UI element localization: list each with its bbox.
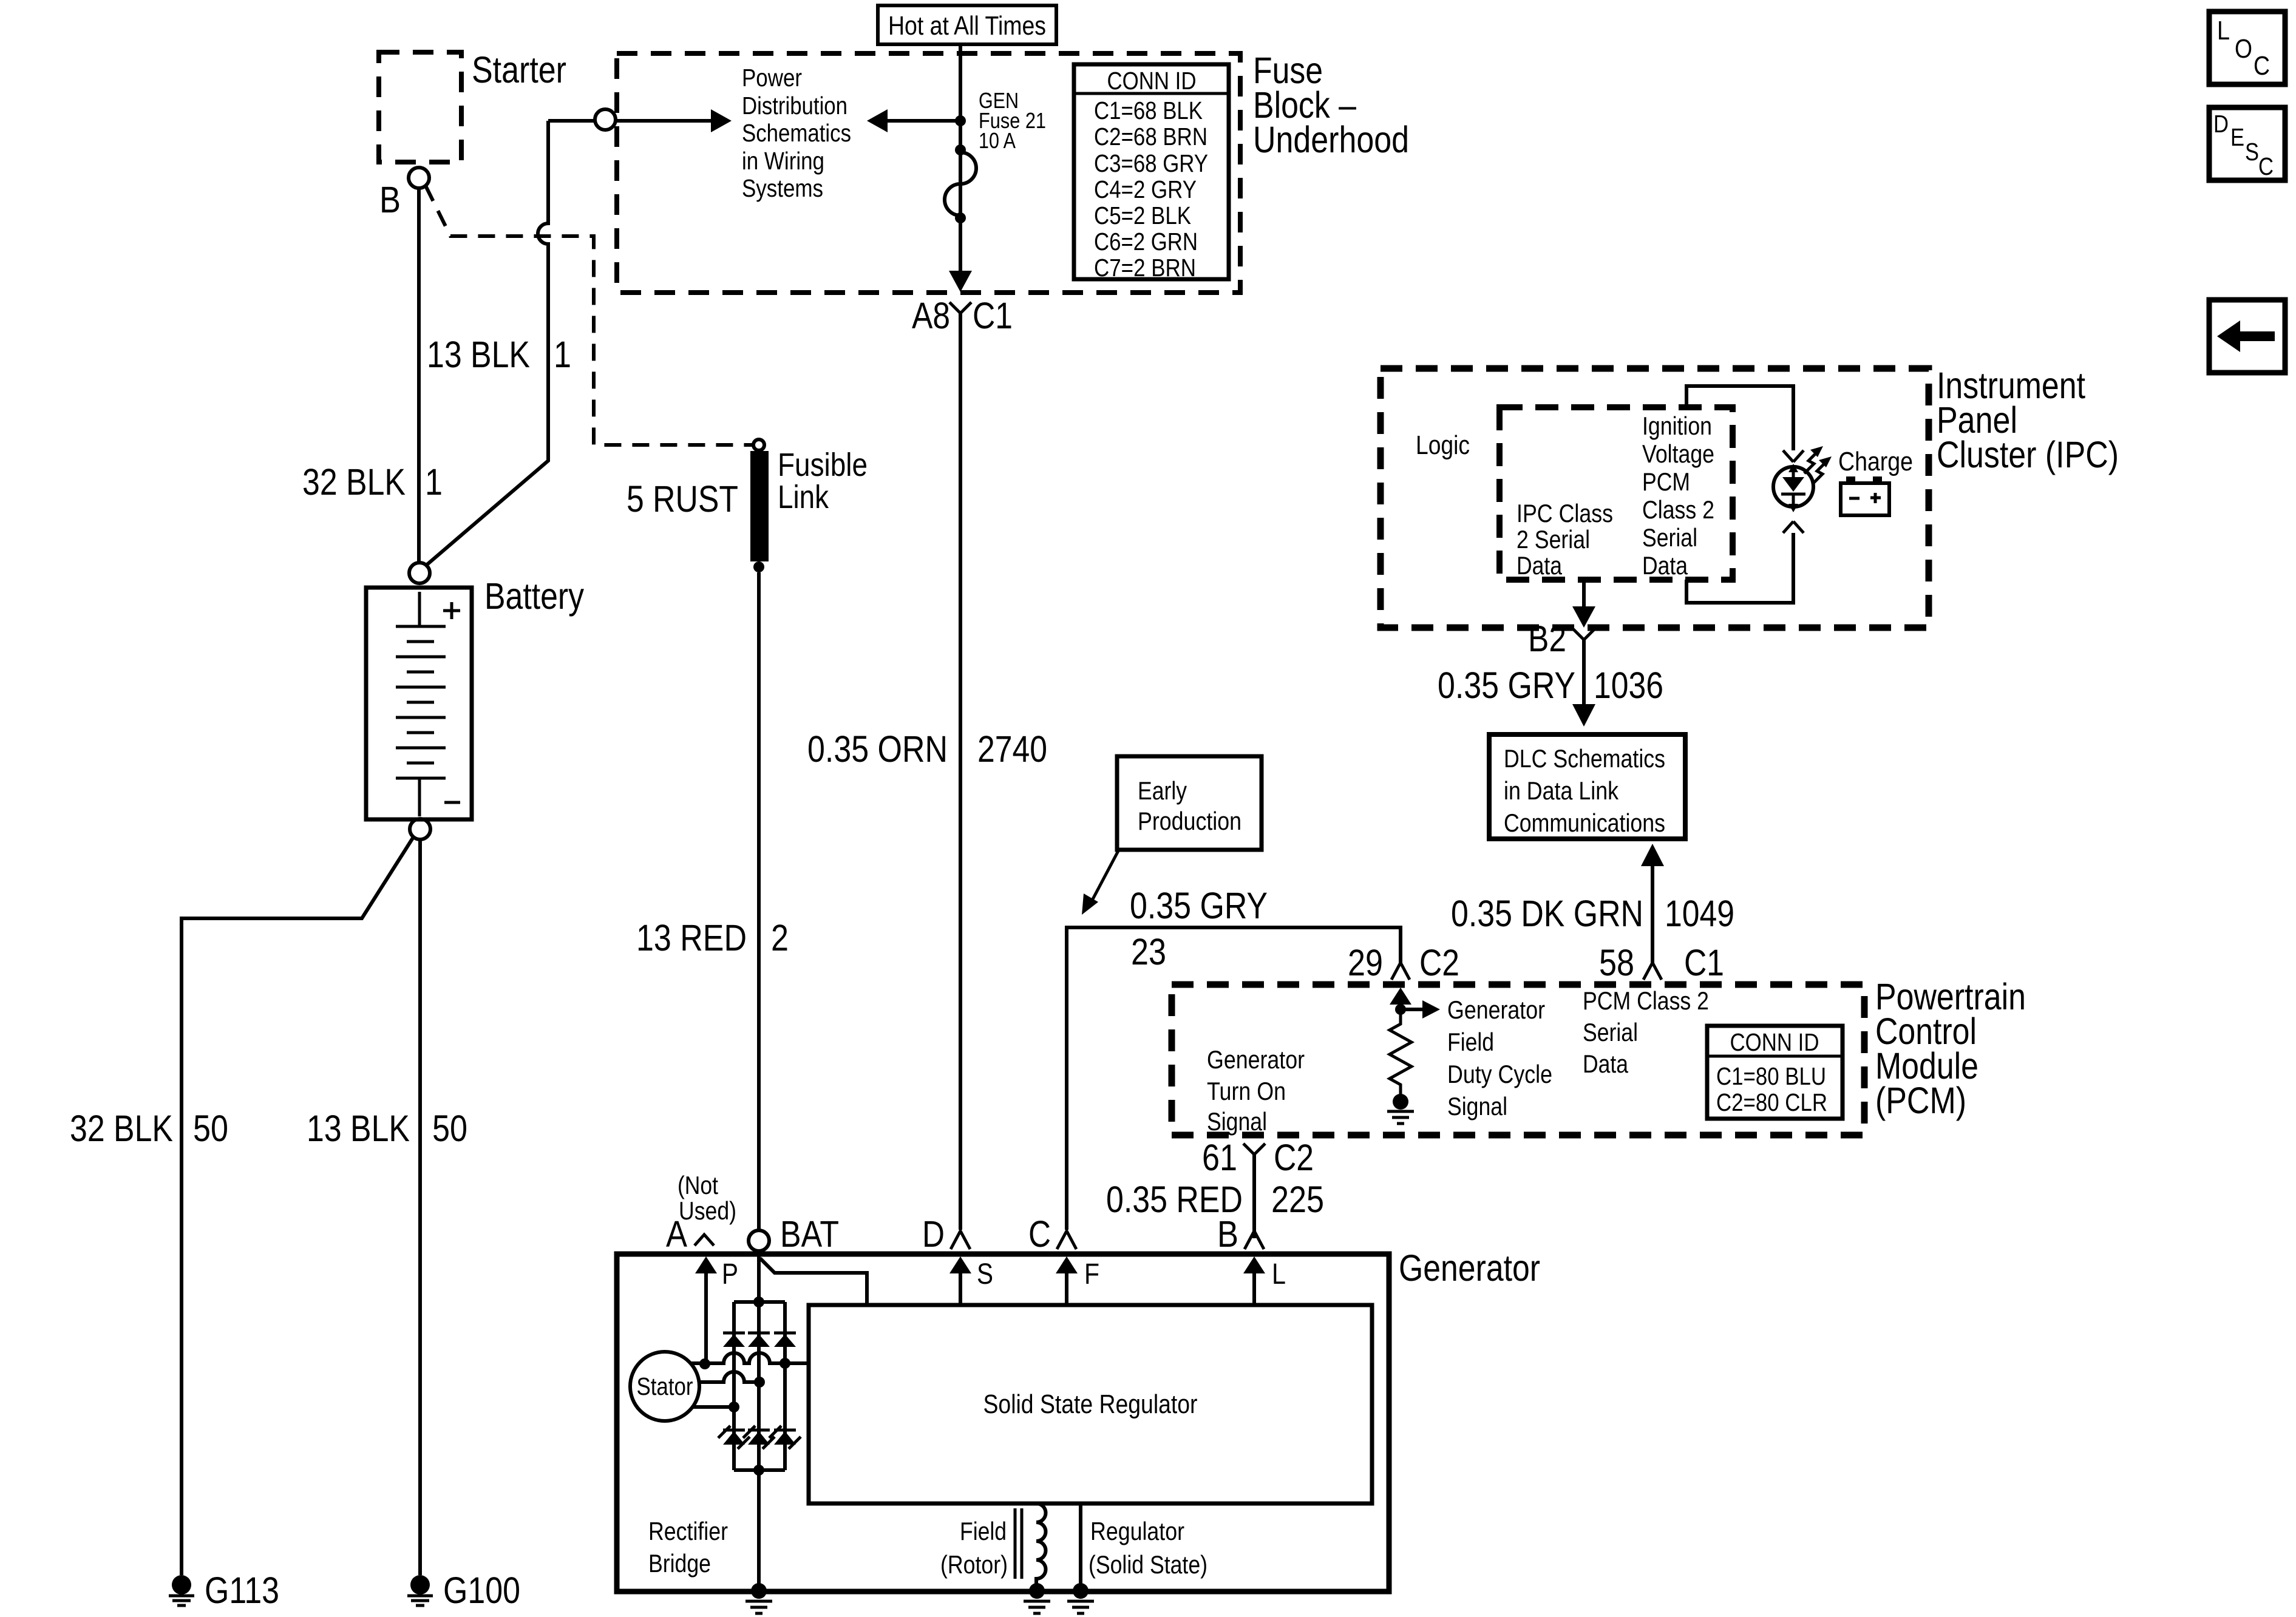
LED vertical stubs with arrows <box>1792 469 1795 507</box>
field rotor core bars <box>1015 1508 1022 1579</box>
terminal F arrow inside generator <box>1065 1269 1068 1305</box>
svg-text:B: B <box>379 179 401 220</box>
svg-text:Communications: Communications <box>1504 808 1665 837</box>
label IPC Class 2 Serial Data <box>1517 499 1613 580</box>
generator box <box>617 1254 1389 1592</box>
LOC box top right <box>2209 12 2285 84</box>
node phase1 at stator <box>699 1358 710 1369</box>
back arrow box right side <box>2209 300 2285 373</box>
svg-text:D: D <box>922 1213 945 1255</box>
svg-text:Charge: Charge <box>1838 447 1913 476</box>
svg-text:Generator: Generator <box>1399 1247 1540 1289</box>
starter dashed box <box>379 52 461 162</box>
label power distribution schematics <box>742 64 851 202</box>
ground G100 <box>407 1570 520 1611</box>
wire segment right of arrow <box>888 119 960 123</box>
svg-text:PCM Class 2: PCM Class 2 <box>1583 986 1709 1015</box>
early production pointer line <box>1091 850 1119 903</box>
svg-text:Generator: Generator <box>1207 1045 1305 1074</box>
node junction on fuse wire <box>955 115 966 126</box>
fuse GEN Fuse 21 10A : top node <box>955 144 966 155</box>
svg-text:2740: 2740 <box>977 728 1047 770</box>
svg-text:Turn On: Turn On <box>1207 1077 1286 1105</box>
label (Not Used) <box>678 1171 736 1225</box>
instrument panel cluster dashed box <box>1381 368 1929 628</box>
label Regulator (Solid State) <box>1089 1517 1207 1579</box>
svg-text:1: 1 <box>425 461 443 503</box>
battery top connector circle <box>409 563 430 583</box>
rectifier bridge top bus <box>734 1300 785 1304</box>
early production arrowhead <box>1082 893 1098 915</box>
svg-text:C3=68 GRY: C3=68 GRY <box>1094 149 1208 177</box>
label Fuse Block - Underhood <box>1253 50 1409 160</box>
wire from logic box top to LED branch <box>1686 386 1793 450</box>
diode top right <box>774 1333 796 1347</box>
svg-text:DLC Schematics: DLC Schematics <box>1504 744 1665 773</box>
svg-text:13 RED: 13 RED <box>636 917 747 958</box>
svg-text:29: 29 <box>1348 942 1383 983</box>
svg-text:Bridge: Bridge <box>648 1549 711 1578</box>
ground in PCM : node <box>1393 1094 1408 1110</box>
svg-text:Fusible: Fusible <box>778 447 868 483</box>
svg-text:Production: Production <box>1138 807 1241 835</box>
label Ignition Voltage PCM Class 2 Serial Data <box>1642 412 1714 580</box>
DLC schematics box <box>1489 734 1685 839</box>
svg-text:Distribution: Distribution <box>742 92 847 120</box>
CONN ID table (PCM) <box>1707 1026 1843 1119</box>
svg-text:Data: Data <box>1642 551 1688 580</box>
LED cathode bar <box>1781 493 1805 496</box>
svg-text:in Data Link: in Data Link <box>1504 776 1619 805</box>
svg-text:0.35 GRY: 0.35 GRY <box>1438 665 1575 706</box>
svg-text:S: S <box>2245 138 2259 166</box>
svg-text:Ignition: Ignition <box>1642 412 1712 440</box>
zener bottom right <box>769 1426 801 1449</box>
label 0.35 DK GRN 1049 <box>1451 893 1734 934</box>
svg-text:1049: 1049 <box>1665 893 1734 934</box>
svg-text:C1: C1 <box>973 295 1013 336</box>
stator winding phase 1 <box>691 1353 809 1363</box>
svg-text:(Rotor): (Rotor) <box>940 1550 1008 1579</box>
svg-text:F: F <box>1084 1258 1099 1290</box>
svg-text:13 BLK: 13 BLK <box>427 334 530 375</box>
svg-text:Solid State Regulator: Solid State Regulator <box>983 1389 1198 1419</box>
svg-text:0.35 DK GRN: 0.35 DK GRN <box>1451 893 1643 934</box>
BAT wire into generator down to ground <box>757 1251 761 1585</box>
svg-text:Used): Used) <box>679 1196 736 1225</box>
svg-text:Serial: Serial <box>1642 523 1697 552</box>
svg-text:50: 50 <box>432 1108 467 1149</box>
svg-text:E: E <box>2230 123 2244 151</box>
svg-text:C1=80 BLU: C1=80 BLU <box>1716 1062 1826 1090</box>
svg-text:2 Serial: 2 Serial <box>1517 525 1590 554</box>
svg-text:(PCM): (PCM) <box>1875 1080 1966 1121</box>
svg-text:Systems: Systems <box>742 174 823 202</box>
svg-text:Voltage: Voltage <box>1642 439 1714 468</box>
resistor generator field duty cycle <box>1390 1009 1411 1094</box>
wire branch to power distribution (right arrow) <box>616 119 711 123</box>
svg-text:Data: Data <box>1517 551 1563 580</box>
wire 13 RED 2 from fusible link to BAT <box>757 572 761 1230</box>
label 32 BLK 1 <box>302 461 443 503</box>
ground in PCM : bars <box>1387 1111 1414 1124</box>
svg-text:C2: C2 <box>1274 1137 1314 1178</box>
svg-text:BAT: BAT <box>780 1213 839 1255</box>
connector D with S terminal <box>922 1213 970 1255</box>
node phase3 at left rail <box>729 1402 739 1412</box>
wire 0.35 GRY 1036 <box>1582 640 1586 705</box>
wire 0.35 GRY 23 from corner to PCM 29 C2 <box>1067 927 1401 1230</box>
svg-text:Starter: Starter <box>472 49 566 90</box>
battery box <box>366 588 472 819</box>
svg-text:CONN ID: CONN ID <box>1730 1028 1819 1056</box>
node BAT top bus <box>753 1297 764 1307</box>
svg-text:Serial: Serial <box>1583 1018 1638 1046</box>
node on resistor top <box>1395 1004 1406 1015</box>
label Fusible Link <box>778 447 868 515</box>
LED light arrow 2 <box>1813 456 1832 484</box>
wire from starter area through connector ring <box>548 119 594 123</box>
PCM internal arrow up at 29 C2 <box>1399 1002 1402 1009</box>
battery minus sign <box>444 801 460 804</box>
node regulator ground <box>1073 1583 1089 1599</box>
connector 29 C2 <box>1348 942 1459 983</box>
label Instrument Panel Cluster (IPC) <box>1937 365 2119 475</box>
svg-text:C: C <box>1028 1213 1051 1255</box>
svg-text:C: C <box>2258 152 2274 180</box>
ground below field coil <box>1024 1601 1050 1613</box>
stator winding phase 2 <box>699 1372 759 1382</box>
connector B2 <box>1573 629 1595 640</box>
svg-text:C2=80 CLR: C2=80 CLR <box>1716 1088 1827 1116</box>
svg-text:Rectifier: Rectifier <box>648 1517 728 1545</box>
diode top left <box>723 1333 745 1347</box>
wire 0.35 DK GRN 1049 up to DLC <box>1651 865 1654 963</box>
svg-text:P: P <box>722 1258 738 1290</box>
svg-text:C2=68 BRN: C2=68 BRN <box>1094 123 1207 151</box>
zener bottom middle <box>743 1426 775 1449</box>
svg-text:C1: C1 <box>1684 942 1724 983</box>
rectifier bridge bottom bus <box>734 1468 785 1472</box>
svg-text:Underhood: Underhood <box>1253 119 1409 160</box>
svg-text:Logic: Logic <box>1416 430 1470 460</box>
connector circle at starter B <box>409 168 429 188</box>
label 0.35 GRY 1036 <box>1438 665 1663 706</box>
svg-text:A8: A8 <box>912 295 950 336</box>
wire 0.35 ORN 2740 down to generator S <box>959 313 962 1230</box>
IPC logic inner dashed box <box>1500 407 1733 580</box>
connector C with F terminal <box>1028 1213 1076 1255</box>
connector BAT circle <box>749 1230 769 1251</box>
svg-text:Class 2: Class 2 <box>1642 495 1714 524</box>
B2 exit arrow inside IPC <box>1582 580 1586 607</box>
svg-text:Duty Cycle: Duty Cycle <box>1447 1060 1552 1088</box>
stator circle <box>630 1352 699 1421</box>
connector A (not used) chevron <box>695 1235 714 1246</box>
terminal P arrow inside generator <box>704 1269 708 1363</box>
ground below BAT <box>746 1601 772 1613</box>
label Rectifier Bridge <box>648 1517 728 1578</box>
label Generator Turn On Signal <box>1207 1045 1305 1136</box>
svg-text:Link: Link <box>778 479 829 515</box>
svg-text:L: L <box>1272 1258 1286 1290</box>
svg-text:Schematics: Schematics <box>742 119 851 147</box>
svg-text:S: S <box>977 1258 993 1290</box>
svg-text:50: 50 <box>193 1108 228 1149</box>
rectifier bridge left rail <box>732 1302 736 1470</box>
svg-text:Regulator: Regulator <box>1090 1517 1184 1545</box>
svg-text:Signal: Signal <box>1447 1092 1507 1120</box>
svg-text:B: B <box>1217 1213 1238 1255</box>
fuse block underhood dashed box <box>617 53 1240 293</box>
svg-text:32 BLK: 32 BLK <box>302 461 406 503</box>
node phase2 at middle rail <box>754 1377 765 1388</box>
fuse element squiggle <box>945 152 976 215</box>
node phase1 at right rail <box>779 1358 790 1369</box>
svg-text:C2: C2 <box>1419 942 1459 983</box>
svg-text:in Wiring: in Wiring <box>742 147 824 175</box>
svg-text:G113: G113 <box>205 1570 279 1611</box>
fusible link bottom node <box>753 561 764 572</box>
svg-text:B2: B2 <box>1528 618 1566 659</box>
svg-text:PCM: PCM <box>1642 467 1690 496</box>
svg-text:Field: Field <box>960 1517 1007 1545</box>
svg-text:225: 225 <box>1271 1179 1324 1220</box>
connector circle inline <box>595 109 616 130</box>
svg-text:10 A: 10 A <box>979 128 1016 153</box>
CONN ID table (fuse block) <box>1074 64 1229 282</box>
wire 13 BLK 1 with crossover hop <box>425 121 548 566</box>
svg-text:C1=68 BLK: C1=68 BLK <box>1094 97 1203 124</box>
label 32 BLK 50 <box>70 1108 228 1149</box>
node field coil at bottom <box>1029 1583 1045 1599</box>
svg-text:CONN ID: CONN ID <box>1107 67 1197 95</box>
svg-text:Early: Early <box>1138 776 1187 805</box>
svg-text:L: L <box>2217 16 2230 46</box>
label Generator Field Duty Cycle Signal <box>1447 995 1552 1120</box>
svg-text:32 BLK: 32 BLK <box>70 1108 173 1149</box>
label 13 BLK 50 <box>307 1108 467 1149</box>
svg-text:(Not: (Not <box>678 1171 718 1199</box>
svg-text:C6=2 GRN: C6=2 GRN <box>1094 228 1198 256</box>
terminal L arrow inside generator <box>1252 1269 1256 1305</box>
node bottom bus <box>753 1465 764 1476</box>
solid state regulator box <box>809 1305 1372 1503</box>
fusible link top circle <box>753 439 764 450</box>
svg-text:C7=2 BRN: C7=2 BRN <box>1094 254 1196 282</box>
battery plus sign <box>443 602 460 619</box>
charge indicator LED circle <box>1773 467 1813 507</box>
wire 0.35 RED 225 down to generator L <box>1252 1154 1256 1238</box>
wire 32 BLK 50 to G113 <box>182 837 413 1575</box>
wire 32 BLK 1 from B to battery <box>417 188 421 563</box>
wire from hot box to fuse <box>959 44 962 272</box>
zener bottom left <box>718 1426 750 1449</box>
svg-text:Hot at All Times: Hot at All Times <box>888 11 1046 41</box>
battery internal plates <box>396 592 446 816</box>
svg-text:D: D <box>2213 110 2229 138</box>
svg-text:C5=2 BLK: C5=2 BLK <box>1094 202 1191 229</box>
svg-text:58: 58 <box>1599 942 1634 983</box>
svg-text:Stator: Stator <box>637 1372 693 1400</box>
arrow down at fuse block bottom edge <box>949 271 972 292</box>
wire 13 BLK 50 to G100 <box>418 839 422 1575</box>
svg-text:5 RUST: 5 RUST <box>627 478 738 520</box>
label 0.35 RED 225 <box>1106 1179 1324 1220</box>
fuse bottom node <box>955 212 966 223</box>
dashed starter wire to fusible link <box>426 186 753 445</box>
stator winding phase 3 <box>693 1405 734 1409</box>
wire from LED bottom back to logic box <box>1686 533 1793 603</box>
terminal S arrow inside generator <box>959 1269 962 1305</box>
svg-text:C4=2 GRY: C4=2 GRY <box>1094 175 1197 203</box>
svg-text:C: C <box>2254 51 2270 81</box>
svg-text:61: 61 <box>1202 1137 1237 1178</box>
svg-text:Power: Power <box>742 64 802 92</box>
powertrain control module dashed box <box>1172 985 1864 1135</box>
battery bottom connector circle <box>410 819 430 839</box>
svg-text:G100: G100 <box>443 1570 520 1611</box>
hot at all times box <box>878 5 1056 44</box>
label 13 RED 2 <box>636 917 789 958</box>
field rotor coil <box>1036 1503 1046 1585</box>
LED light arrow 1 <box>1804 446 1823 473</box>
svg-text:0.35 ORN: 0.35 ORN <box>807 728 948 770</box>
label Powertrain Control Module (PCM) <box>1875 976 2026 1121</box>
ground G113 <box>169 1570 279 1611</box>
svg-text:(Solid State): (Solid State) <box>1089 1550 1207 1579</box>
connector 61 C2 below PCM <box>1202 1137 1314 1178</box>
svg-text:23: 23 <box>1131 931 1166 972</box>
DESC box right side <box>2209 107 2285 180</box>
label GEN Fuse 21 10 A <box>979 88 1046 153</box>
svg-text:2: 2 <box>771 917 789 958</box>
connector 58 C1 <box>1599 942 1724 983</box>
svg-text:O: O <box>2235 34 2252 64</box>
ground below regulator <box>1067 1601 1094 1613</box>
connector B with L terminal <box>1217 1213 1264 1255</box>
BAT sense branch to regulator <box>760 1258 867 1305</box>
svg-text:Signal: Signal <box>1207 1107 1267 1136</box>
svg-text:Battery: Battery <box>484 575 584 617</box>
connector A8/C1 below fuse block <box>912 295 1013 336</box>
svg-text:1036: 1036 <box>1594 665 1663 706</box>
rectifier bridge right rail <box>783 1302 787 1470</box>
early production box <box>1117 756 1262 850</box>
regulator ground wire <box>1079 1503 1082 1585</box>
svg-text:Generator: Generator <box>1447 995 1545 1024</box>
node BAT at generator bottom <box>751 1583 767 1599</box>
LED bottom connector chevron <box>1783 521 1804 533</box>
label Field (Rotor) <box>940 1517 1008 1579</box>
svg-text:13 BLK: 13 BLK <box>307 1108 410 1149</box>
svg-text:1: 1 <box>554 334 571 375</box>
charge battery icon <box>1841 476 1889 515</box>
label PCM Class 2 Serial Data <box>1583 986 1709 1078</box>
arrow right from node <box>1401 1008 1424 1011</box>
label 13 BLK 1 <box>427 334 571 375</box>
svg-text:0.35 GRY: 0.35 GRY <box>1130 885 1268 926</box>
svg-text:Cluster (IPC): Cluster (IPC) <box>1937 434 2119 475</box>
svg-text:IPC Class: IPC Class <box>1517 499 1613 527</box>
svg-text:Field: Field <box>1447 1028 1494 1056</box>
arrow pointing left into text <box>867 109 888 132</box>
LED top connector chevron <box>1783 450 1804 462</box>
fusible link bar <box>750 451 769 561</box>
svg-text:Data: Data <box>1583 1049 1629 1078</box>
LED triangle <box>1782 477 1804 492</box>
label 0.35 ORN 2740 <box>807 728 1047 770</box>
diode top middle <box>748 1333 770 1347</box>
